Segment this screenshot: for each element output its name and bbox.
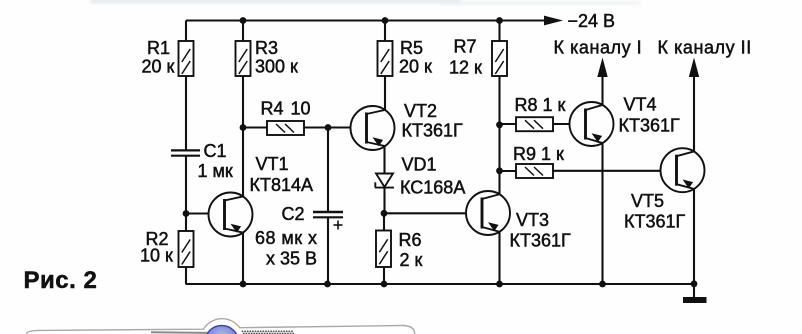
wire node1-node2 bbox=[498, 125, 500, 171]
svg-text:VT5: VT5 bbox=[631, 191, 664, 211]
diode VD1 bbox=[375, 174, 394, 188]
capacitor C1 bbox=[171, 150, 200, 155]
decorative widget bbox=[27, 319, 415, 334]
wire R8-VT4 base bbox=[553, 123, 570, 125]
svg-text:R4: R4 bbox=[261, 99, 284, 119]
svg-text:R5: R5 bbox=[400, 38, 423, 58]
label R9 bbox=[513, 144, 564, 164]
label VD1 bbox=[400, 155, 465, 198]
resistor R5 bbox=[378, 41, 393, 76]
svg-text:R9 1 к: R9 1 к bbox=[513, 144, 564, 164]
node R4/C2 bbox=[325, 124, 332, 131]
svg-text:R1: R1 bbox=[147, 38, 170, 58]
wire R5 top drop bbox=[384, 21, 386, 42]
resistor R9 bbox=[516, 164, 553, 178]
node rail-R5 bbox=[382, 17, 389, 24]
svg-text:Рис. 2: Рис. 2 bbox=[24, 267, 98, 294]
svg-text:2 к: 2 к bbox=[400, 250, 423, 270]
svg-text:х 35 В: х 35 В bbox=[266, 249, 317, 269]
wire R1-C1 bbox=[185, 76, 187, 150]
wire R2-rail bbox=[185, 267, 187, 285]
label C2 bbox=[255, 204, 317, 269]
wire bottom rail bbox=[186, 284, 694, 297]
svg-text:R7: R7 bbox=[454, 37, 477, 57]
node rail-VT5e bbox=[691, 280, 698, 287]
svg-text:КТ814А: КТ814А bbox=[250, 175, 314, 195]
wire VT3 emitter bbox=[498, 231, 500, 284]
wire VT3 collector bbox=[498, 171, 500, 195]
label VT2 bbox=[402, 101, 464, 141]
node rail-VT4e bbox=[599, 281, 606, 288]
label K kanalu I bbox=[554, 38, 643, 58]
decorative bbox=[90, 0, 640, 5]
svg-text:1 мк: 1 мк bbox=[198, 161, 233, 181]
node R9/VT3c bbox=[496, 167, 503, 174]
svg-text:VT1: VT1 bbox=[256, 154, 289, 174]
svg-text:R6: R6 bbox=[399, 230, 422, 250]
svg-text:VD1: VD1 bbox=[402, 155, 437, 175]
wire VT5 collector bbox=[693, 77, 695, 152]
wire R7 top drop bbox=[498, 21, 500, 42]
label R8 bbox=[515, 95, 566, 115]
node rail-VT3e bbox=[496, 281, 503, 288]
label -24 V bbox=[568, 11, 616, 31]
svg-text:C1: C1 bbox=[204, 141, 227, 161]
svg-text:R3: R3 bbox=[255, 38, 278, 58]
wire C1-node bbox=[185, 156, 187, 214]
label R3 bbox=[255, 38, 298, 77]
node R7/R8 bbox=[496, 121, 503, 128]
node rail-R7 bbox=[496, 17, 503, 24]
caption Ris. 2 bbox=[24, 267, 98, 294]
svg-text:20 к: 20 к bbox=[142, 57, 175, 77]
svg-text:300 к: 300 к bbox=[255, 57, 298, 77]
label R6 bbox=[399, 230, 423, 270]
wire R5-VT2 collector bbox=[384, 76, 386, 111]
svg-text:R8 1 к: R8 1 к bbox=[515, 95, 566, 115]
label VT3 bbox=[510, 210, 572, 251]
wire node-R4 bbox=[243, 126, 267, 128]
resistor R3 bbox=[236, 41, 251, 76]
label K kanalu II bbox=[658, 38, 752, 58]
svg-text:12 к: 12 к bbox=[449, 58, 482, 78]
svg-text:−24 В: −24 В bbox=[568, 11, 616, 31]
output arrow channel I bbox=[597, 58, 607, 78]
svg-text:10 к: 10 к bbox=[140, 246, 173, 266]
wire VT1 collector bbox=[242, 128, 244, 197]
label VT1 bbox=[250, 154, 314, 195]
node rail-R6 bbox=[381, 281, 388, 288]
node R3/R4/VT1c bbox=[240, 124, 247, 131]
label R5 bbox=[399, 38, 432, 77]
wire top -24V rail bbox=[186, 19, 545, 21]
svg-text:68 мк х: 68 мк х bbox=[255, 228, 317, 248]
label VT5 bbox=[624, 191, 686, 232]
transistor VT1 bbox=[209, 193, 253, 237]
svg-text:К каналу II: К каналу II bbox=[658, 38, 752, 58]
wire VD1-node bbox=[383, 188, 385, 214]
wire node-R8 bbox=[500, 123, 517, 125]
wire VT1 emitter bbox=[242, 232, 244, 284]
svg-text:КС168А: КС168А bbox=[400, 178, 465, 198]
svg-text:C2: C2 bbox=[282, 204, 305, 224]
svg-text:КТ361Г: КТ361Г bbox=[624, 212, 686, 232]
wire VT3 base bbox=[384, 212, 466, 214]
transistor VT4 bbox=[570, 102, 614, 146]
wire R9-VT5 base bbox=[553, 170, 661, 172]
wire node-R9 bbox=[500, 170, 517, 172]
wire VT2 emitter-VD1 bbox=[383, 146, 385, 174]
wire base VT1 bbox=[186, 212, 209, 214]
svg-text:КТ361Г: КТ361Г bbox=[402, 121, 464, 141]
svg-text:VT2: VT2 bbox=[404, 101, 437, 121]
output arrow channel II bbox=[689, 58, 699, 78]
svg-text:К каналу I: К каналу I bbox=[554, 38, 643, 58]
transistor VT3 bbox=[466, 191, 510, 235]
resistor R7 bbox=[492, 41, 507, 76]
svg-text:10: 10 bbox=[291, 99, 311, 119]
wire R7-node1 bbox=[498, 76, 500, 125]
svg-text:VT3: VT3 bbox=[516, 210, 549, 230]
wire R1 top drop bbox=[185, 21, 187, 42]
node rail-R3 bbox=[240, 17, 247, 24]
resistor R2 bbox=[179, 231, 194, 267]
resistor R6 bbox=[376, 231, 391, 268]
label R7 bbox=[449, 37, 482, 78]
node C1/R2/VT1 base bbox=[183, 210, 190, 217]
label R4 bbox=[261, 99, 311, 119]
wire R6-rail bbox=[383, 267, 385, 284]
wire C2 bottom bbox=[327, 217, 329, 284]
transistor VT2 bbox=[351, 106, 395, 150]
svg-text:VT4: VT4 bbox=[624, 95, 657, 115]
wire R3 top drop bbox=[242, 21, 244, 42]
wire node-R6 bbox=[383, 213, 385, 231]
label VT4 bbox=[619, 95, 681, 136]
power arrow -24V bbox=[544, 16, 563, 26]
svg-text:20 к: 20 к bbox=[399, 57, 432, 77]
node rail-C2 bbox=[324, 281, 331, 288]
svg-text:КТ361Г: КТ361Г bbox=[510, 231, 572, 251]
label C1 bbox=[198, 141, 233, 181]
transistor VT5 bbox=[661, 148, 705, 192]
wire node-R2 bbox=[185, 214, 187, 232]
node VD1/R6/VT3 base bbox=[381, 210, 388, 217]
resistor R8 bbox=[516, 117, 553, 131]
wire R3-node bbox=[242, 76, 244, 128]
svg-text:КТ361Г: КТ361Г bbox=[619, 116, 681, 136]
label R2 bbox=[140, 229, 173, 266]
wire VT4 collector bbox=[601, 77, 603, 106]
label R1 bbox=[142, 38, 175, 77]
wire R4-VT2 base bbox=[304, 126, 351, 128]
wire VT5 emitter bbox=[693, 189, 695, 284]
wire VT4 emitter bbox=[601, 143, 603, 284]
ground bbox=[683, 297, 707, 303]
resistor R1 bbox=[179, 41, 194, 76]
capacitor C2 bbox=[313, 212, 343, 230]
wire C2 top bbox=[327, 128, 329, 212]
resistor R4 bbox=[267, 121, 304, 135]
node rail-VT1e bbox=[240, 281, 247, 288]
